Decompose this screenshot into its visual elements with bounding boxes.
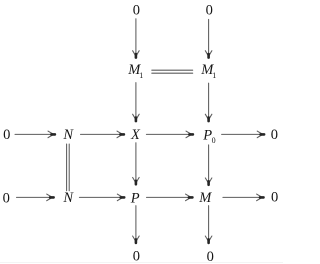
arrow P0 to 0 row2 (222, 131, 266, 138)
arrow X to P col3 (133, 143, 140, 186)
arrow P0 to M col4 (205, 145, 212, 186)
svg-text:0: 0 (206, 3, 213, 19)
svg-text:0: 0 (271, 189, 278, 205)
arrow M1 to X col3 (133, 83, 140, 123)
arrow M1 to P0 col4 (205, 83, 212, 122)
arrow N to X row2 (81, 131, 126, 138)
arrow 0 to M1 col3 (133, 19, 140, 59)
arrow 0 to N row3 (17, 194, 55, 201)
svg-text:0: 0 (133, 3, 140, 19)
arrow P to M row3 (147, 194, 194, 201)
svg-text:M: M (198, 190, 212, 206)
svg-text:M1: M1 (200, 62, 216, 80)
svg-text:0: 0 (271, 127, 278, 143)
svg-text:0: 0 (3, 127, 10, 143)
equality M1 to M1 horizontal double line (152, 70, 193, 73)
svg-text:N: N (62, 127, 74, 143)
svg-text:0: 0 (207, 249, 214, 264)
equality N to N vertical double line (67, 144, 70, 191)
svg-text:P: P (130, 191, 140, 207)
faint page border bottom (0, 262, 283, 263)
arrow 0 to M1 col4 (205, 19, 212, 59)
svg-text:0: 0 (3, 191, 10, 207)
arrow 0 to N row2 (15, 131, 56, 138)
arrow X to P0 row2 (146, 131, 194, 138)
arrow N to P row3 (79, 194, 125, 201)
svg-text:0: 0 (133, 249, 140, 264)
svg-text:M1: M1 (127, 62, 143, 80)
svg-text:P0: P0 (202, 128, 215, 146)
svg-text:X: X (130, 127, 141, 143)
arrow M to 0 col4 (205, 206, 212, 245)
arrow M to 0 row3 (223, 194, 265, 201)
arrow P to 0 col3 (133, 206, 140, 245)
svg-text:N: N (62, 190, 74, 206)
